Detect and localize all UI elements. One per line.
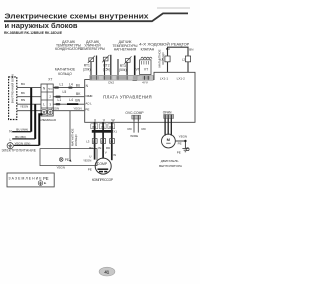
- wire U phase: [94, 122, 96, 159]
- svg-text:RD: RD: [106, 146, 110, 150]
- svg-text:VT: VT: [136, 67, 140, 71]
- compressor ground labels: [88, 168, 92, 172]
- wire VT lead: [133, 56, 140, 81]
- svg-text:L4: L4: [69, 98, 73, 102]
- svg-text:L3: L3: [86, 139, 90, 143]
- connector strip CN2: [90, 75, 140, 84]
- svg-text:YE: YE: [98, 146, 102, 150]
- svg-text:BU (WH): BU (WH): [16, 128, 28, 132]
- svg-text:RK-36BBU/E RK-12BBU/E RK-18D: RK-36BBU/E RK-12BBU/E RK-18DU/E: [4, 31, 63, 35]
- 4-way valve coil VT: [140, 57, 152, 74]
- label: discharge temp sensor: [112, 40, 137, 51]
- svg-text:YEGN: YEGN: [20, 105, 28, 109]
- ferrite ring on reactor wire L3: [160, 56, 170, 62]
- fan ground symbol: [177, 148, 189, 155]
- pin N: [86, 84, 89, 88]
- comp terminal labels: [89, 151, 116, 159]
- svg-text:(20k): (20k): [83, 68, 91, 72]
- wire supply L: [12, 135, 35, 139]
- svg-text:L4: L4: [69, 83, 73, 87]
- pin PE: [85, 107, 89, 111]
- supply ground symbol: [7, 143, 13, 149]
- svg-text:U: U: [89, 154, 91, 158]
- wire supply N: [12, 128, 31, 132]
- svg-text:RD: RD: [142, 127, 146, 131]
- wire V phase: [102, 122, 104, 158]
- svg-text:N(1): N(1): [48, 89, 53, 91]
- wire XT to board row3 BN: [53, 98, 84, 105]
- wire RT2 pair: [105, 55, 111, 76]
- thermistor RT1: [83, 56, 95, 72]
- svg-text:RD: RD: [128, 127, 132, 131]
- svg-text:L2: L2: [182, 58, 186, 62]
- svg-text:BU: BU: [76, 84, 81, 88]
- title line 1: [5, 11, 150, 20]
- chassis base box: [40, 149, 97, 170]
- thermistor RT2: [102, 55, 110, 72]
- svg-text:VT: VT: [144, 68, 148, 72]
- wire reactor to board: [168, 62, 189, 72]
- svg-text:BK: BK: [21, 91, 25, 95]
- svg-text:ДВИГАТЕЛЬ: ДВИГАТЕЛЬ: [161, 159, 179, 163]
- page number oval: [99, 267, 115, 276]
- big ferrite ring bar: [92, 130, 113, 133]
- svg-text:PE: PE: [88, 168, 92, 172]
- svg-text:КЛЕММНАЯ: КЛЕММНАЯ: [40, 118, 56, 122]
- svg-text:BU: BU: [21, 82, 25, 86]
- wire indoor to XT BK: [17, 91, 41, 97]
- ring L2: [101, 139, 106, 144]
- svg-text:ВЕНТИЛЯТОРА: ВЕНТИЛЯТОРА: [159, 164, 183, 168]
- fan motor M: [162, 134, 176, 148]
- svg-text:PE: PE: [65, 158, 69, 162]
- wire color tag RD: [108, 124, 115, 129]
- label terminal strip: [40, 118, 56, 122]
- svg-text:XT: XT: [48, 78, 52, 82]
- svg-text:LX1-2: LX1-2: [177, 77, 186, 81]
- label XT small: [113, 129, 117, 133]
- svg-text:Электрические схемы внутренни: Электрические схемы внутренних: [5, 11, 150, 20]
- svg-text:МАГНИТНОЕ: МАГНИТНОЕ: [55, 68, 76, 72]
- wire color tag BU: [91, 124, 98, 129]
- svg-text:YEGN: YEGN: [179, 135, 188, 139]
- svg-text:ЗАЗЕМЛЕНИЕ: ЗАЗЕМЛЕНИЕ: [9, 176, 43, 180]
- svg-text:YEGN: YEGN: [51, 106, 59, 110]
- comp wire colors: [89, 146, 110, 150]
- compressor COMP: [95, 158, 111, 174]
- pin AC-L: [85, 102, 92, 106]
- wire XT to board row2 BK: [53, 90, 84, 98]
- connector OVC-COMP: [125, 111, 144, 121]
- svg-text:YEGN: YEGN: [57, 165, 66, 169]
- svg-text:BN (BK): BN (BK): [15, 135, 26, 139]
- XT ground terminal right: [48, 109, 53, 114]
- svg-text:4YV: 4YV: [142, 81, 148, 85]
- svg-text:PE: PE: [178, 142, 182, 146]
- title underline rule: [4, 13, 188, 21]
- ferrite ring on reactor wire L2: [182, 56, 191, 62]
- wire fan PE: [175, 135, 187, 149]
- label: condenser temp sensor: [55, 40, 83, 51]
- terminal N: [9, 129, 12, 133]
- pin LX1-2: [177, 77, 186, 81]
- svg-text:L: L: [43, 103, 45, 107]
- svg-text:L5: L5: [63, 90, 67, 94]
- svg-text:YEGN (GN): YEGN (GN): [15, 141, 31, 145]
- svg-text:V: V: [105, 151, 107, 155]
- magnetic ring label (left group): [55, 68, 76, 76]
- svg-text:ЭЛЕКТРОПИТАНИЕ: ЭЛЕКТРОПИТАНИЕ: [2, 149, 37, 153]
- svg-text:YEGN: YEGN: [73, 106, 81, 110]
- header smudge: [157, 7, 190, 9]
- model numbers: [4, 31, 63, 35]
- label power supply: [2, 149, 37, 153]
- svg-text:OFAN: OFAN: [163, 111, 172, 115]
- svg-text:BN: BN: [21, 98, 25, 102]
- wire XT to board row4 YEGN: [51, 106, 84, 110]
- svg-text:КЛАПАН: КЛАПАН: [141, 48, 155, 52]
- svg-text:L: L: [181, 44, 183, 48]
- control board U1: [85, 72, 195, 122]
- svg-text:КОЛЬЦО: КОЛЬЦО: [58, 72, 72, 76]
- pin COMM: [85, 94, 93, 98]
- svg-text:41: 41: [104, 269, 109, 274]
- svg-text:L1: L1: [60, 83, 64, 87]
- svg-text:COMM: COMM: [85, 94, 93, 98]
- wire RT1 pair: [91, 56, 97, 77]
- label fan motor: [159, 159, 183, 168]
- wire color tag YE: [99, 124, 106, 129]
- terminal block XT: [41, 78, 53, 116]
- ring L3: [110, 139, 115, 144]
- wire supply riser 1: [30, 88, 32, 132]
- svg-text:X1: X1: [113, 129, 117, 133]
- svg-text:PE: PE: [85, 107, 89, 111]
- svg-text:CN2: CN2: [108, 80, 114, 84]
- svg-text:OVC-COMP: OVC-COMP: [125, 111, 144, 115]
- wire RT3 pair: [118, 59, 127, 76]
- wire indoor to XT YEGN: [17, 105, 41, 111]
- grounding legend box: [7, 173, 54, 187]
- svg-text:BU: BU: [89, 146, 93, 150]
- svg-text:PE: PE: [43, 176, 49, 181]
- title line 2: [5, 21, 78, 30]
- terminal L: [10, 138, 12, 142]
- svg-text:PE: PE: [177, 150, 181, 154]
- magnetic ring vertical label (reactor): [157, 49, 165, 67]
- svg-text:COMP: COMP: [97, 162, 108, 166]
- svg-text:и наружных блоков: и наружных блоков: [5, 21, 78, 30]
- svg-text:BU: BU: [166, 47, 170, 51]
- indoor unit dashed box: [9, 74, 17, 120]
- wire XT to board row1 BU: [53, 83, 84, 89]
- connector OFAN: [163, 111, 174, 119]
- svg-text:КОНДЕНСАТОРА: КОНДЕНСАТОРА: [55, 47, 83, 51]
- wire supply riser 3: [39, 114, 42, 145]
- ring L1: [86, 139, 97, 144]
- svg-text:AC-L: AC-L: [85, 102, 92, 106]
- svg-text:(15k): (15k): [103, 68, 111, 72]
- svg-text:ВНУТРЕННИЙ БЛОК: ВНУТРЕННИЙ БЛОК: [10, 74, 14, 104]
- label: outdoor temp sensor: [80, 40, 105, 51]
- svg-text:LX1-1: LX1-1: [160, 77, 169, 81]
- wire indoor to XT BN: [17, 98, 41, 104]
- ground wire to chassis: [70, 111, 78, 160]
- wire OFAN to fan motor: [165, 118, 171, 135]
- svg-text:W: W: [113, 153, 116, 157]
- svg-text:YEGN: YEGN: [83, 158, 91, 162]
- svg-text:(50k): (50k): [119, 68, 127, 72]
- svg-text:КОЛЬЦО: КОЛЬЦО: [74, 134, 78, 146]
- XT ground terminal left: [41, 109, 46, 114]
- label: reactor: [171, 43, 190, 47]
- svg-text:BN: BN: [75, 99, 80, 103]
- connector 4YV: [137, 76, 153, 85]
- thermistor RT3: [119, 56, 131, 72]
- wire W phase: [111, 122, 113, 160]
- svg-text:BN: BN: [189, 47, 193, 51]
- svg-text:КОМПРЕССОР: КОМПРЕССОР: [92, 178, 113, 182]
- label compressor: [92, 178, 113, 182]
- pins U V W: [94, 119, 116, 123]
- reactor L: [166, 44, 194, 56]
- wire supply PE: [14, 141, 40, 145]
- svg-text:ТЕМПЕРАТУРЫ: ТЕМПЕРАТУРЫ: [80, 47, 105, 51]
- svg-text:4-Х ХОДОВОЙ: 4-Х ХОДОВОЙ: [139, 42, 170, 46]
- pin LX1-1: [160, 77, 169, 81]
- svg-text:НАГНЕТАНИЯ: НАГНЕТАНИЯ: [114, 48, 137, 52]
- svg-text:L1: L1: [58, 98, 62, 102]
- svg-text:L: L: [10, 138, 12, 142]
- wire OVC to protector: [128, 121, 146, 138]
- svg-text:ПЛАТА УПРАВЛЕНИЯ: ПЛАТА УПРАВЛЕНИЯ: [103, 95, 152, 100]
- wire indoor to XT BU: [17, 82, 41, 88]
- svg-text:WIRE: WIRE: [130, 134, 138, 138]
- label: 4-way valve: [139, 42, 170, 51]
- wire supply riser 2: [34, 104, 36, 139]
- svg-text:КОЛЬЦО: КОЛЬЦО: [161, 52, 165, 65]
